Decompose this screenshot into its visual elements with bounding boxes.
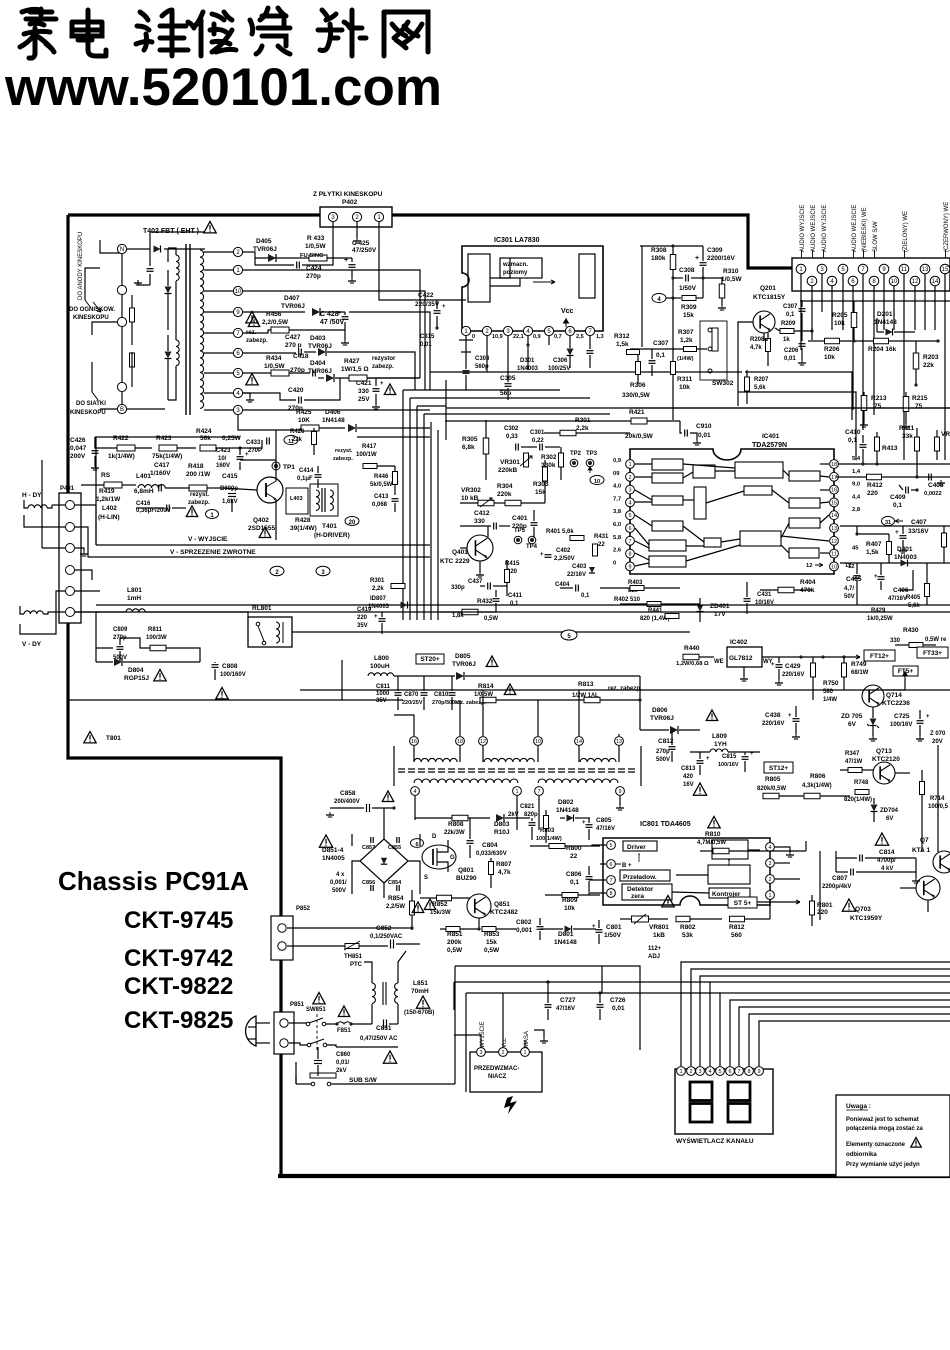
svg-text:(ZIELONY) WE: (ZIELONY) WE [903, 211, 909, 252]
svg-text:R213: R213 [871, 395, 887, 402]
svg-text:R807: R807 [496, 861, 512, 868]
svg-text:0,001/: 0,001/ [330, 880, 347, 886]
T801 pin 1 [513, 787, 522, 796]
header pin 8 [869, 276, 879, 286]
IC401 pin 13 [830, 524, 839, 533]
wire r308 col down [641, 246, 643, 347]
svg-text:C438: C438 [765, 712, 781, 719]
wire P402 pin3 down [332, 222, 334, 232]
IC301 inner block right [579, 254, 595, 298]
svg-text:rezyst.: rezyst. [335, 448, 353, 454]
wire header pin drops [800, 274, 802, 305]
svg-text:Uwaga :: Uwaga : [846, 1103, 871, 1110]
svg-text:TH851: TH851 [344, 954, 363, 960]
svg-text:Q7: Q7 [920, 837, 929, 844]
svg-text:SUB S/W: SUB S/W [349, 1077, 378, 1084]
svg-text:4 kV: 4 kV [881, 866, 893, 872]
FBT pin B [117, 404, 126, 413]
svg-text:1,3: 1,3 [596, 334, 604, 340]
svg-text:17: 17 [831, 475, 837, 481]
warning triangle R810 [875, 833, 888, 845]
svg-text:1N4003: 1N4003 [368, 604, 390, 610]
svg-text:C814: C814 [879, 849, 895, 856]
svg-text:C858: C858 [340, 790, 356, 797]
svg-text:10 kB: 10 kB [461, 495, 479, 502]
svg-text:SLOW S/W: SLOW S/W [873, 221, 879, 252]
svg-text:3: 3 [479, 1050, 482, 1056]
svg-text:TVR06J: TVR06J [308, 368, 332, 375]
svg-text:13: 13 [922, 267, 929, 273]
svg-text:Q401: Q401 [452, 549, 468, 556]
header pin 12 [910, 276, 920, 286]
IC301 pin 4 [523, 326, 532, 335]
svg-text:C423: C423 [216, 448, 231, 454]
header pin 11 [899, 264, 909, 274]
circled 5 ellipse [561, 630, 577, 640]
svg-text:+: + [895, 529, 899, 536]
svg-text:5,6k: 5,6k [908, 603, 920, 609]
svg-text:15k/3W: 15k/3W [430, 910, 451, 916]
svg-text:C806: C806 [566, 871, 582, 878]
svg-text:1k: 1k [783, 337, 790, 343]
svg-text:R401 5,6k: R401 5,6k [546, 529, 574, 535]
wire [164, 248, 205, 250]
svg-text:R423: R423 [156, 435, 172, 442]
svg-text:1k/0,25W: 1k/0,25W [867, 616, 893, 622]
svg-text:ST20+: ST20+ [420, 656, 440, 663]
svg-text:C412: C412 [474, 510, 490, 517]
IC801 pin 6 [607, 860, 616, 869]
svg-text:5,6k: 5,6k [754, 385, 766, 391]
svg-text:18: 18 [457, 739, 463, 745]
display pin 4 [706, 1067, 715, 1076]
svg-text:(H-DRIVER): (H-DRIVER) [314, 532, 350, 539]
svg-text:C413: C413 [374, 494, 389, 500]
boxed label ST5+ [728, 897, 757, 908]
svg-text:4: 4 [768, 845, 771, 851]
svg-text:R809: R809 [562, 897, 578, 904]
svg-text:R432: R432 [477, 598, 493, 605]
FBT primary winding lower [176, 340, 179, 366]
svg-text:47/1W: 47/1W [845, 759, 863, 765]
svg-text:180k: 180k [651, 255, 666, 262]
warning triangle T801 [84, 732, 96, 743]
svg-text:P402: P402 [342, 199, 358, 206]
boxed label ST12+ [764, 762, 793, 773]
svg-text:0,36μF/200V: 0,36μF/200V [136, 508, 171, 514]
svg-text:2200/16V: 2200/16V [707, 255, 735, 262]
wire elbow C406 [900, 570, 913, 590]
svg-text:14: 14 [932, 279, 939, 285]
warning triangle R854 [424, 899, 435, 910]
svg-text:rezyst.: rezyst. [190, 492, 209, 498]
header pin 13 [920, 264, 930, 274]
svg-text:6,0: 6,0 [613, 522, 621, 528]
svg-text:TP4: TP4 [526, 544, 538, 550]
svg-text:SW851: SW851 [306, 1007, 326, 1013]
svg-text:C727: C727 [560, 997, 576, 1004]
svg-text:C418: C418 [293, 353, 309, 360]
svg-text:R852: R852 [432, 901, 448, 908]
svg-text:C206: C206 [784, 348, 799, 354]
svg-text:1,8k: 1,8k [452, 613, 464, 619]
svg-text:P401: P401 [60, 486, 75, 492]
svg-text:KTC 2229: KTC 2229 [440, 558, 470, 565]
svg-text:C725: C725 [894, 713, 910, 720]
svg-text:+: + [695, 255, 699, 262]
svg-text:6,8mH: 6,8mH [134, 488, 154, 495]
warning triangle pin5 [246, 374, 258, 385]
svg-text:DO OGNISKOW.: DO OGNISKOW. [69, 307, 115, 313]
svg-text:100(1/4W): 100(1/4W) [536, 836, 562, 842]
IC401 pin 11 [830, 549, 839, 558]
svg-text:4,7k: 4,7k [498, 869, 511, 876]
svg-text:39(1/4W): 39(1/4W) [290, 525, 317, 532]
svg-text:220: 220 [817, 909, 828, 916]
svg-text:C426: C426 [70, 437, 86, 444]
svg-text:R215: R215 [912, 395, 928, 402]
svg-text:C308: C308 [679, 267, 695, 274]
svg-text:22k: 22k [923, 362, 934, 369]
svg-text:R208: R208 [750, 337, 765, 343]
svg-text:R407: R407 [866, 541, 882, 548]
svg-text:10K: 10K [298, 417, 310, 424]
svg-text:13: 13 [616, 739, 622, 745]
svg-text:poziomy: poziomy [503, 270, 528, 276]
svg-text:zabezp.: zabezp. [188, 500, 210, 506]
svg-text:160V: 160V [216, 463, 230, 469]
wire RL801 out [292, 631, 403, 633]
svg-text:16V: 16V [683, 782, 694, 788]
svg-text:+: + [337, 310, 341, 317]
wire display bus to preamp A [454, 981, 710, 983]
svg-text:20V: 20V [932, 739, 943, 745]
svg-text:C870: C870 [404, 692, 419, 698]
wire hv cap rails [835, 851, 837, 872]
svg-text:KINESKOPU: KINESKOPU [70, 410, 106, 416]
svg-text:D: D [432, 834, 437, 840]
svg-text:C807: C807 [832, 875, 848, 882]
svg-text:1,5k: 1,5k [866, 549, 879, 556]
wire row 534 [857, 533, 889, 535]
IC401 pin 3 [626, 485, 635, 494]
wire verticals centre [402, 390, 404, 620]
IC401 pin 17 [830, 472, 839, 481]
svg-text:270p: 270p [656, 749, 670, 755]
svg-text:S: S [424, 875, 428, 881]
resistor R419 body [104, 482, 122, 488]
header pin 5 [838, 264, 848, 274]
svg-text:Vcc: Vcc [561, 308, 574, 315]
channel display box [675, 1069, 773, 1134]
wire pin10 run [243, 291, 425, 390]
svg-text:R411: R411 [899, 425, 915, 432]
svg-text:330p: 330p [451, 585, 465, 591]
svg-text:RGP15J: RGP15J [124, 675, 149, 682]
T801 pin 10 [534, 737, 543, 746]
svg-text:CKT-9825: CKT-9825 [124, 1007, 233, 1034]
svg-text:0,01/: 0,01/ [336, 1060, 350, 1066]
svg-text:C307: C307 [783, 304, 798, 310]
svg-text:0,5W: 0,5W [484, 616, 498, 622]
svg-text:14: 14 [576, 739, 582, 745]
svg-text:TVR06J: TVR06J [308, 343, 332, 350]
svg-text:6: 6 [415, 842, 418, 848]
svg-text:220/16V: 220/16V [782, 672, 804, 678]
svg-text:+: + [540, 552, 544, 558]
svg-text:(NIEBIESKI) WE: (NIEBIESKI) WE [862, 207, 868, 252]
svg-text:200 /1W: 200 /1W [186, 471, 211, 478]
IC301 arrows [533, 280, 555, 284]
IC IC801 body [603, 838, 770, 905]
svg-text:C 425: C 425 [352, 240, 370, 247]
FBT pin (focus) [117, 285, 126, 294]
svg-text:rezystor: rezystor [372, 356, 396, 362]
svg-text:B: B [120, 407, 124, 413]
svg-text:KINESKOPU: KINESKOPU [73, 315, 109, 321]
svg-text:D806: D806 [652, 707, 668, 714]
display pin 2 [687, 1067, 696, 1076]
svg-text:5: 5 [628, 513, 631, 519]
svg-text:ST12+: ST12+ [769, 765, 789, 772]
svg-text:L851: L851 [413, 980, 428, 987]
svg-text:DO ANODY KINESKOPU: DO ANODY KINESKOPU [78, 232, 84, 300]
H-DY coil [28, 505, 47, 508]
svg-text:75: 75 [915, 403, 923, 410]
FBT diode stack D2 [165, 287, 172, 294]
svg-text:33k: 33k [902, 433, 913, 440]
warning triangle C851 [383, 1051, 396, 1063]
wire display left feeds [455, 966, 640, 1050]
wire H-out collector [275, 430, 277, 460]
svg-text:R801: R801 [817, 902, 833, 909]
svg-text:820p: 820p [524, 812, 538, 818]
warning triangle F851 [338, 1006, 349, 1017]
svg-text:Ponieważ jest to schemat: Ponieważ jest to schemat [846, 1117, 919, 1123]
svg-text:R431: R431 [594, 534, 609, 540]
svg-text:R209: R209 [781, 321, 796, 327]
svg-text:C808: C808 [222, 663, 238, 670]
svg-text:0,068: 0,068 [372, 502, 388, 508]
svg-text:WE: WE [714, 659, 724, 665]
svg-text:1N4005: 1N4005 [322, 855, 345, 862]
header pin 3 [817, 264, 827, 274]
svg-text:C414: C414 [299, 468, 314, 474]
svg-text:6: 6 [609, 862, 612, 868]
svg-text:47/16V: 47/16V [888, 596, 907, 602]
svg-text:1,6kV: 1,6kV [222, 499, 238, 505]
svg-text:3: 3 [628, 488, 631, 494]
IC801 block Detektor zera [622, 884, 672, 900]
IC401 pin 15 [830, 498, 839, 507]
svg-text:C402: C402 [556, 548, 571, 554]
wire CRT leads [100, 240, 122, 253]
wire pin4 gnd [243, 393, 250, 397]
svg-text:1W/1,5 Ω: 1W/1,5 Ω [341, 366, 369, 373]
svg-text:0,001: 0,001 [516, 927, 533, 934]
svg-text:330: 330 [474, 518, 485, 525]
svg-text:R440: R440 [684, 645, 700, 652]
svg-text:1,4: 1,4 [852, 469, 861, 475]
svg-text:D201: D201 [877, 311, 893, 318]
svg-text:7: 7 [737, 1069, 740, 1075]
display pin 6 [726, 1067, 735, 1076]
svg-text:330: 330 [358, 388, 369, 395]
IC801 block Przeladow [620, 870, 670, 881]
svg-text:C415: C415 [222, 473, 238, 480]
svg-text:1: 1 [515, 789, 518, 795]
svg-text:4,7k: 4,7k [750, 345, 762, 351]
svg-text:75: 75 [874, 403, 882, 410]
svg-text:SW302: SW302 [712, 380, 734, 387]
svg-text:100/160V: 100/160V [220, 672, 246, 678]
boxed label FT5+ [893, 666, 918, 676]
IC401 pin 2 [626, 472, 635, 481]
svg-text:820k/0,5W: 820k/0,5W [757, 786, 786, 792]
svg-text:R428: R428 [295, 517, 311, 524]
svg-text:1N4148: 1N4148 [556, 807, 579, 814]
wire display stair buses [681, 962, 950, 1066]
svg-text:AUDIO WYJSCIE: AUDIO WYJSCIE [822, 205, 828, 252]
svg-text:FT33+: FT33+ [923, 650, 942, 657]
svg-text:270p: 270p [306, 273, 321, 280]
svg-text:N: N [120, 247, 124, 253]
svg-text:14: 14 [831, 513, 837, 519]
wire FBT left rails [121, 254, 123, 285]
svg-text:200/400V: 200/400V [334, 799, 360, 805]
svg-text:100/16V: 100/16V [890, 722, 912, 728]
svg-text:R750: R750 [823, 680, 839, 687]
warning triangle D806 [706, 710, 717, 721]
FBT pin (grid) [117, 382, 126, 391]
svg-text:D851-4: D851-4 [322, 847, 344, 854]
svg-text:0,22: 0,22 [532, 438, 544, 444]
svg-text:1/4W: 1/4W [823, 697, 837, 703]
boxed label FT33+ [917, 647, 948, 658]
svg-text:C307: C307 [653, 340, 669, 347]
svg-text:820(1/4W): 820(1/4W) [844, 797, 872, 803]
svg-text:53k: 53k [682, 932, 693, 939]
svg-text:4 x: 4 x [336, 872, 345, 878]
wire right col buses [838, 463, 950, 465]
svg-text:Q713: Q713 [876, 748, 892, 755]
warning triangle R814 [504, 684, 515, 695]
svg-text:R310: R310 [723, 268, 739, 275]
svg-text:CKT-9745: CKT-9745 [124, 907, 233, 934]
svg-text:220: 220 [867, 490, 878, 497]
svg-text:15k: 15k [683, 312, 694, 319]
svg-text:ID807: ID807 [370, 596, 387, 602]
svg-text:2,2k: 2,2k [372, 586, 384, 592]
svg-text:35V: 35V [357, 623, 368, 629]
svg-text:Elementy oznaczone: Elementy oznaczone [846, 1142, 906, 1148]
svg-text:10: 10 [535, 739, 541, 745]
T801 core [398, 768, 638, 770]
website logo Chinese calligraphy 家电维修资料网 [20, 8, 428, 58]
svg-text:2: 2 [501, 1050, 504, 1056]
svg-text:R421: R421 [629, 409, 645, 416]
FBT pin 6 [233, 348, 242, 357]
svg-text:IC801 TDA4605: IC801 TDA4605 [640, 821, 691, 828]
svg-text:PRZEDWZMAC-: PRZEDWZMAC- [474, 1066, 519, 1072]
IC401 pin 6 [626, 524, 635, 533]
svg-text:D405: D405 [256, 238, 272, 245]
svg-text:C420: C420 [288, 387, 304, 394]
svg-text:C409: C409 [890, 494, 906, 501]
svg-text:R748: R748 [854, 780, 869, 786]
svg-text:+: + [750, 751, 754, 757]
svg-text:R207: R207 [754, 377, 769, 383]
svg-text:R413: R413 [882, 445, 898, 452]
svg-text:0,1: 0,1 [656, 352, 665, 359]
T801 pin 4 [411, 787, 420, 796]
svg-text:500V: 500V [332, 888, 346, 894]
svg-text:1/160V: 1/160V [150, 470, 171, 477]
svg-text:4: 4 [708, 1069, 711, 1075]
svg-text:AUDIO WYJSCIE: AUDIO WYJSCIE [800, 205, 806, 252]
IC401 pin 10 [830, 562, 839, 571]
T801 pin stubs [414, 785, 416, 787]
svg-text:R426: R426 [290, 429, 305, 435]
connector main 15-pin header [792, 258, 950, 291]
svg-text:RL801: RL801 [252, 605, 272, 612]
wire bottom bus [453, 982, 455, 1010]
wire display bus to preamp B [466, 992, 720, 994]
IC801 block Driver [623, 841, 657, 851]
svg-text:R810: R810 [705, 831, 721, 838]
IC IC301 body [462, 246, 603, 331]
svg-text:KTC2482: KTC2482 [490, 909, 518, 916]
connector P402 [320, 207, 392, 227]
IC301 pin 7 [585, 326, 594, 335]
svg-text:Q851: Q851 [494, 901, 510, 908]
IC401 pin 1 [626, 460, 635, 469]
warning triangle R801 [842, 899, 855, 911]
svg-text:C422: C422 [418, 292, 434, 299]
wire bus D [520, 699, 584, 701]
wire mid-lower bus [96, 604, 950, 606]
svg-text:C315: C315 [420, 334, 435, 340]
FBT pin 7 [233, 328, 242, 337]
T801 pin 14 [575, 737, 584, 746]
svg-text:R405: R405 [906, 595, 921, 601]
boxed label FT12+ [864, 650, 895, 661]
svg-text:0,01: 0,01 [698, 432, 711, 439]
svg-text:+: + [380, 381, 384, 387]
warning triangle C808 [216, 688, 228, 699]
svg-text:22: 22 [598, 542, 605, 548]
svg-text:0,9: 0,9 [613, 458, 622, 464]
svg-text:2kV: 2kV [336, 1068, 347, 1074]
svg-text:0,1: 0,1 [570, 879, 579, 886]
svg-text:H - DY: H - DY [22, 492, 42, 499]
warning triangle R852 [412, 902, 423, 913]
svg-text:200V: 200V [70, 453, 86, 460]
svg-text:22/16V: 22/16V [567, 572, 586, 578]
svg-text:VR801: VR801 [649, 924, 669, 931]
svg-text:47/16V: 47/16V [596, 826, 615, 832]
svg-text:1: 1 [768, 893, 771, 899]
svg-text:6: 6 [628, 526, 631, 532]
mains plug [246, 1016, 256, 1046]
svg-text:2: 2 [689, 1069, 692, 1075]
svg-text:R808: R808 [448, 821, 464, 828]
header pin 4 [827, 276, 837, 286]
wire mid horizontals [417, 405, 446, 407]
transformer T801 frame [393, 746, 395, 786]
focus divider resistor 2 [130, 353, 135, 367]
svg-text:10k: 10k [564, 905, 575, 912]
